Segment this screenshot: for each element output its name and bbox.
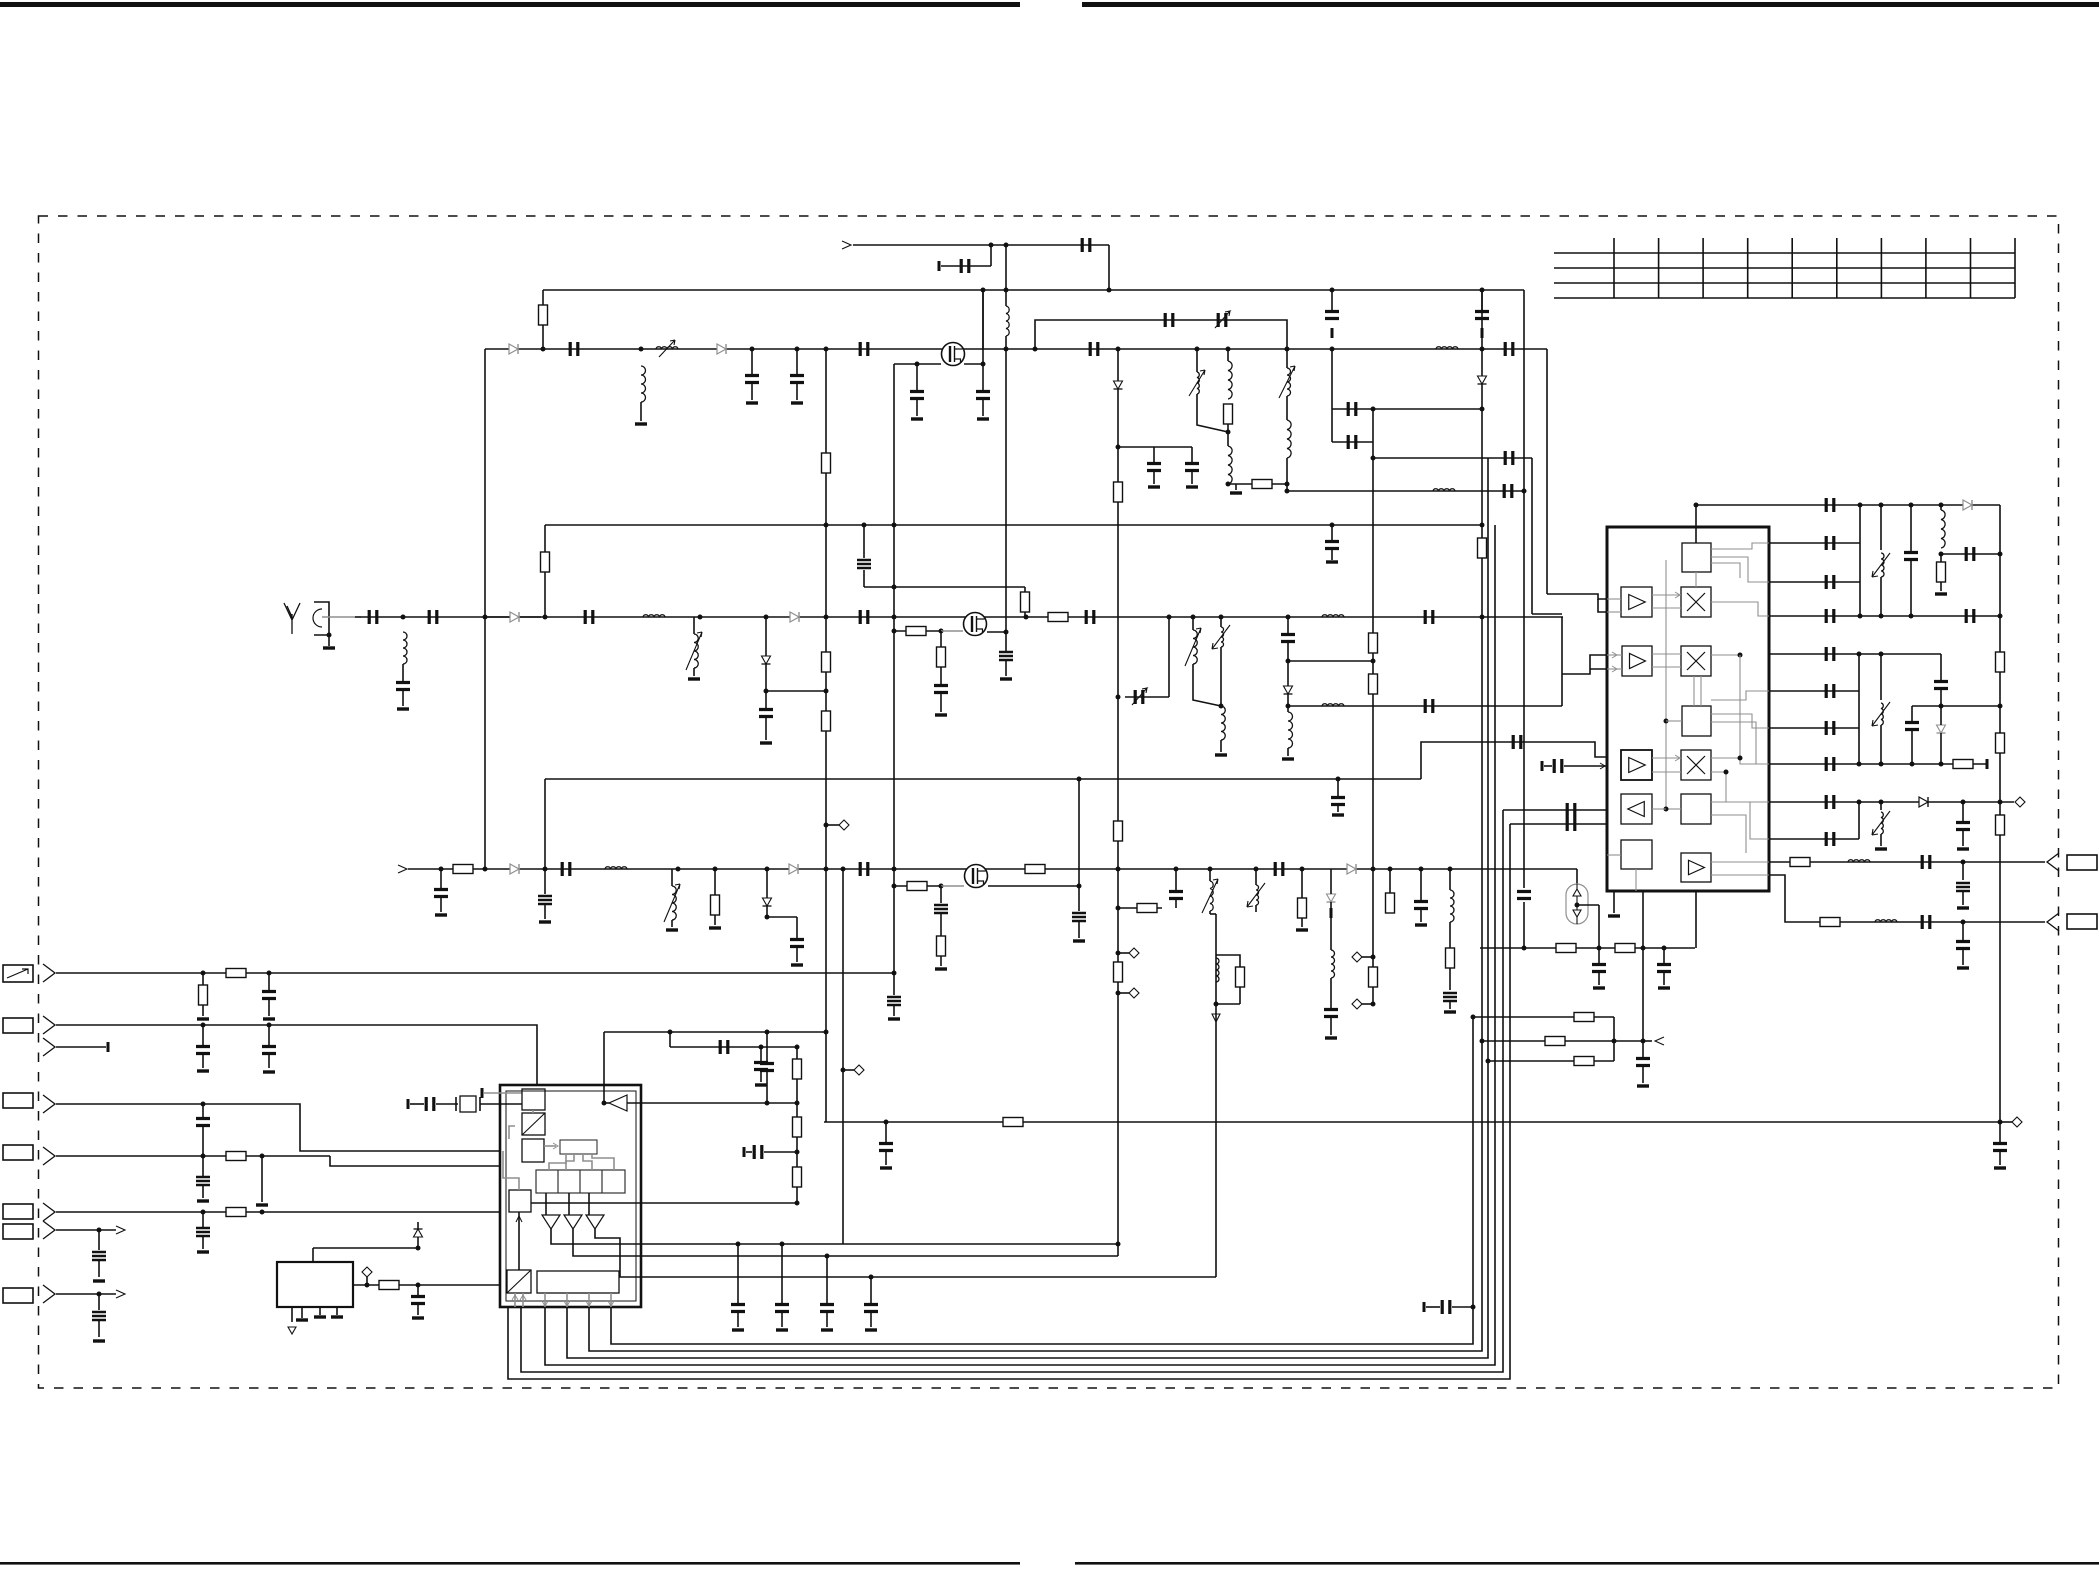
buffer 3 [586, 1215, 604, 1229]
wire long x1373 [1372, 409, 1374, 869]
wire [1613, 1017, 1615, 1061]
variable inductor [656, 347, 678, 349]
node [892, 971, 897, 976]
net stub [2012, 1117, 2022, 1127]
MOSFET Q3 [965, 865, 988, 888]
resistor [1236, 967, 1245, 987]
inductor [1322, 704, 1344, 706]
wire bus line 2 (x1482 cont.) [589, 617, 1482, 1351]
wire [1332, 441, 1373, 443]
wire [870, 1277, 872, 1303]
wire [693, 617, 695, 634]
wire [670, 1046, 797, 1048]
connector K1 [2067, 855, 2097, 870]
wire [765, 716, 767, 740]
connector pin row8 [43, 1285, 55, 1303]
wire [1361, 1003, 1373, 1005]
wire [1332, 408, 1373, 410]
wire [1598, 948, 1600, 963]
diode [510, 612, 519, 622]
node [765, 867, 770, 872]
node [365, 1283, 370, 1288]
wire [1940, 733, 1942, 764]
node [736, 1242, 741, 1247]
wire [417, 1303, 419, 1315]
ground [263, 1017, 275, 1020]
wire merge [1532, 613, 1562, 615]
wire [1577, 904, 1599, 906]
wire [202, 1053, 204, 1068]
wire row R2 [1482, 1040, 1643, 1042]
capacitor [1505, 451, 1513, 465]
capacitor [429, 610, 437, 624]
wire [1193, 664, 1221, 706]
node [260, 1210, 265, 1215]
capacitor [1922, 915, 1930, 929]
node [1641, 946, 1646, 951]
arrow stub supply [842, 241, 851, 249]
capacitor [1165, 313, 1173, 327]
wire control y779 [545, 778, 1421, 780]
node [915, 362, 920, 367]
resistor [199, 985, 208, 1005]
node [416, 1246, 421, 1251]
wire [1911, 706, 1913, 721]
net stub [362, 1267, 372, 1277]
resistor [906, 627, 926, 636]
wire [1695, 572, 1697, 587]
wire [532, 1110, 534, 1113]
wire [1191, 447, 1193, 462]
arrow [520, 1295, 526, 1300]
wire [1880, 505, 1882, 550]
ground [709, 926, 721, 929]
wire [1118, 952, 1129, 954]
resistor [453, 865, 473, 874]
wire [1652, 666, 1681, 668]
arrow [1675, 755, 1680, 761]
ground [1957, 906, 1969, 909]
wire [604, 1102, 609, 1104]
wire to amp3 [1421, 742, 1607, 779]
node [1219, 615, 1224, 620]
resistor [1025, 865, 1045, 874]
wire [781, 1311, 783, 1327]
wire bus line 3 [567, 458, 1488, 1358]
ground [1957, 847, 1969, 850]
wire IC pin [1695, 891, 1697, 948]
capacitor [1082, 238, 1090, 252]
net stub [1352, 999, 1362, 1009]
capacitor [790, 376, 804, 383]
wire [1940, 554, 1942, 562]
wire [1078, 886, 1080, 911]
connector out 2 [2047, 913, 2059, 931]
wire [1858, 654, 1860, 764]
wire [1389, 869, 1391, 893]
ground [1296, 928, 1308, 931]
wire AGC bus y1122 [824, 1121, 2000, 1123]
capacitor [1592, 965, 1606, 972]
capacitor [720, 1040, 728, 1054]
diode [1347, 864, 1356, 874]
wire [863, 525, 865, 558]
wire [1227, 349, 1229, 361]
ground [732, 1328, 744, 1331]
inductor [1216, 958, 1219, 982]
node [1480, 1039, 1485, 1044]
wire [1643, 1040, 1652, 1042]
wire [544, 572, 546, 617]
wire LO out b [1510, 823, 1607, 825]
capacitor [1425, 610, 1433, 624]
wire [885, 1150, 887, 1165]
node [1286, 704, 1291, 709]
capacitor [396, 683, 410, 690]
wire row 8 [1769, 763, 1987, 765]
amplifier A4 [1621, 794, 1652, 824]
capacitor [1657, 965, 1671, 972]
wire [1361, 956, 1373, 958]
wire [544, 869, 546, 894]
wire [440, 869, 442, 888]
resistor [711, 895, 720, 915]
wire [1642, 1065, 1644, 1083]
antenna [284, 603, 300, 634]
wire [746, 1151, 752, 1153]
capacitor [1966, 609, 1974, 623]
pin [291, 1307, 293, 1322]
node [1285, 347, 1290, 352]
wire [1287, 694, 1289, 712]
node [1480, 407, 1485, 412]
node [1214, 1002, 1219, 1007]
node [1167, 615, 1172, 620]
net stub [854, 1065, 864, 1075]
wire [1125, 696, 1169, 698]
wire [1331, 548, 1333, 560]
wire chain2 drop [1561, 617, 1563, 706]
ground [1935, 592, 1947, 595]
node [201, 1102, 206, 1107]
capacitor [745, 376, 759, 383]
wire [1330, 916, 1332, 950]
node [1116, 906, 1121, 911]
wire [1153, 470, 1155, 484]
node [1486, 1059, 1491, 1064]
wire [1024, 587, 1026, 592]
resistor [1003, 1118, 1023, 1127]
node [1371, 456, 1376, 461]
node [1998, 614, 2003, 619]
wire [1420, 869, 1422, 900]
arrow [586, 1301, 592, 1306]
trimmer cap [1221, 627, 1224, 647]
ground [791, 963, 803, 966]
wire [1607, 668, 1622, 670]
wire osc input [1695, 505, 1697, 543]
inductor [1331, 950, 1335, 978]
bias block [1621, 840, 1652, 869]
top border rule left [0, 2, 1020, 7]
capacitor [262, 992, 276, 999]
node [1857, 652, 1862, 657]
node [939, 629, 944, 634]
amplifier A1 [1621, 587, 1652, 617]
wire [1373, 408, 1482, 410]
ground [1282, 757, 1294, 760]
ground [1593, 986, 1605, 989]
connector pin row6 [43, 1203, 55, 1221]
prescaler block [509, 1190, 531, 1212]
node [1195, 347, 1200, 352]
arrow [542, 1301, 548, 1306]
wire [542, 325, 544, 349]
ground [760, 741, 772, 744]
ground [323, 646, 335, 649]
capacitor [1348, 435, 1356, 449]
wire row 6 [1769, 690, 1859, 692]
node [1004, 288, 1009, 293]
wire IF out 2 [1769, 875, 2045, 922]
zener diode [414, 1229, 423, 1237]
wire [916, 398, 918, 416]
wire [1652, 757, 1681, 759]
variable inductor [1193, 630, 1197, 664]
ground [635, 422, 647, 425]
capacitor [1324, 1010, 1338, 1017]
capacitor [1072, 913, 1086, 921]
ground [1608, 914, 1620, 917]
ground [1444, 1010, 1456, 1013]
net stub [1129, 988, 1139, 998]
node [543, 615, 548, 620]
node [892, 523, 897, 528]
capacitor [1636, 1059, 1650, 1066]
wire [544, 779, 546, 869]
capacitor [1517, 892, 1531, 899]
divider cells [536, 1170, 625, 1193]
wire [1859, 505, 1861, 616]
resistor [226, 1152, 246, 1161]
wire [940, 692, 942, 712]
node [1879, 762, 1884, 767]
wire [202, 973, 204, 985]
node [1033, 347, 1038, 352]
buffer 1 [542, 1215, 560, 1229]
wire [1005, 336, 1007, 349]
node [869, 1275, 874, 1280]
wire [940, 956, 942, 966]
wire x1006 cont [1005, 349, 1007, 651]
pin [610, 1293, 612, 1307]
wire [202, 1212, 204, 1227]
node [1480, 347, 1485, 352]
node [1480, 523, 1485, 528]
wire row1 AGC [56, 972, 894, 974]
inductor [1848, 860, 1870, 862]
node [765, 1101, 770, 1106]
node [1998, 1120, 2003, 1125]
node [862, 523, 867, 528]
connector out 1 [2047, 853, 2059, 871]
buffer 2 [564, 1215, 582, 1229]
wire RF chain 1 [485, 348, 1547, 350]
wire [1286, 396, 1288, 420]
wire buffer1 out [551, 1229, 641, 1244]
arrow [1612, 652, 1617, 658]
wire [863, 570, 865, 587]
wire [982, 290, 984, 349]
node [765, 915, 770, 920]
wire [1711, 802, 1769, 839]
node [795, 1150, 800, 1155]
node [1116, 867, 1121, 872]
wire row3 [56, 1046, 106, 1048]
wire [1337, 779, 1339, 796]
wire [843, 1069, 854, 1071]
wire [1330, 869, 1332, 894]
phase detector block [522, 1139, 544, 1162]
wire [1607, 598, 1621, 600]
wire [1216, 1003, 1240, 1005]
wire [765, 617, 767, 656]
resistor [1137, 904, 1157, 913]
node [1330, 288, 1335, 293]
capacitor [196, 1228, 210, 1236]
variable inductor [1287, 368, 1291, 396]
arrow stub [116, 1226, 125, 1234]
terminal [1423, 1302, 1426, 1312]
wire [1197, 394, 1228, 432]
wire [1911, 729, 1913, 764]
wire bus line 6 [508, 824, 1510, 1379]
node [201, 1154, 206, 1159]
wire [1301, 918, 1303, 927]
wire long x894 [893, 364, 895, 995]
resistor [226, 969, 246, 978]
wire [1372, 869, 1374, 1004]
node [1961, 920, 1966, 925]
wire [1940, 654, 1942, 680]
wire [1607, 611, 1621, 613]
ground [1215, 753, 1227, 756]
wire x1524 drop [1523, 491, 1525, 888]
wire [484, 1092, 522, 1094]
wire [98, 1230, 100, 1250]
wire [1652, 808, 1666, 810]
wire to amp1 b [1598, 599, 1607, 612]
node [1857, 800, 1862, 805]
capacitor [1905, 723, 1919, 730]
resistor [1790, 858, 1810, 867]
node [1285, 482, 1290, 487]
wire [796, 382, 798, 400]
wire [766, 869, 768, 898]
capacitor [1826, 721, 1834, 735]
wire row7 [56, 1229, 99, 1231]
node [416, 1283, 421, 1288]
wire x2000 [1999, 505, 2001, 1122]
wire [1287, 661, 1289, 686]
wire [202, 1025, 204, 1045]
terminal [107, 1042, 110, 1052]
wire [1880, 577, 1882, 616]
wire [542, 290, 544, 305]
wire [1652, 653, 1681, 655]
ground [1875, 847, 1887, 850]
capacitor [1169, 892, 1183, 899]
revision table [1554, 238, 2015, 298]
wire [1940, 688, 1942, 706]
wire [366, 1277, 368, 1285]
pin [544, 1293, 546, 1307]
wire source stub [988, 885, 1079, 887]
wire [1209, 911, 1211, 914]
node [1419, 867, 1424, 872]
node [1116, 991, 1121, 996]
wire [1286, 349, 1288, 368]
node [1480, 288, 1485, 293]
capacitor C20 [369, 610, 377, 624]
wire [940, 913, 942, 936]
zener diode [1937, 725, 1946, 733]
node [1226, 347, 1231, 352]
wire [1024, 612, 1026, 617]
wire [1910, 505, 1912, 551]
wire [1880, 802, 1882, 810]
wire [544, 525, 546, 552]
wire [826, 824, 839, 826]
terminal [743, 1147, 746, 1157]
wire [1175, 898, 1177, 908]
varactor pair D10 [1566, 884, 1588, 924]
node [1077, 777, 1082, 782]
wire [1962, 892, 1964, 905]
wire [1663, 948, 1665, 963]
wire [1227, 424, 1229, 446]
variable capacitor [1135, 690, 1143, 704]
variable inductor [1210, 881, 1213, 911]
resistor [1478, 538, 1487, 558]
capacitor [1425, 699, 1433, 713]
capacitor [1086, 610, 1094, 624]
node [981, 362, 986, 367]
capacitor [1325, 542, 1339, 549]
node [1612, 1039, 1617, 1044]
wire [417, 1222, 419, 1248]
node [892, 615, 897, 620]
mixer M1 [1681, 587, 1711, 617]
node [327, 633, 332, 638]
resistor [1369, 674, 1378, 694]
wire chain2 feed [322, 616, 361, 618]
variable inductor [1197, 372, 1199, 394]
node [602, 1101, 607, 1106]
node [1664, 807, 1669, 812]
ground [935, 713, 947, 716]
wire [796, 349, 798, 374]
arrow [1600, 763, 1605, 769]
capacitor [731, 1305, 745, 1312]
node [1597, 946, 1602, 951]
wire to varactor pair [1576, 869, 1578, 884]
ground [911, 417, 923, 420]
pin [319, 1307, 321, 1315]
wire [1652, 771, 1681, 773]
MOSFET Q1 [942, 343, 965, 366]
wire resonator loop [1035, 320, 1287, 349]
